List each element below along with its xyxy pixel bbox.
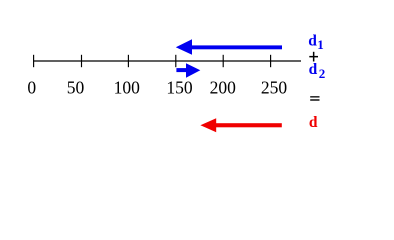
svg-text:100: 100 bbox=[114, 77, 141, 97]
svg-text:150: 150 bbox=[166, 77, 193, 97]
svg-text:d: d bbox=[309, 114, 318, 131]
svg-text:d: d bbox=[308, 33, 317, 50]
svg-text:250: 250 bbox=[261, 77, 288, 97]
svg-text:2: 2 bbox=[319, 66, 326, 81]
svg-text:200: 200 bbox=[210, 77, 237, 97]
svg-text:d: d bbox=[309, 61, 318, 78]
svg-text:50: 50 bbox=[67, 77, 85, 97]
svg-text:1: 1 bbox=[317, 37, 324, 52]
svg-text:0: 0 bbox=[27, 77, 36, 97]
